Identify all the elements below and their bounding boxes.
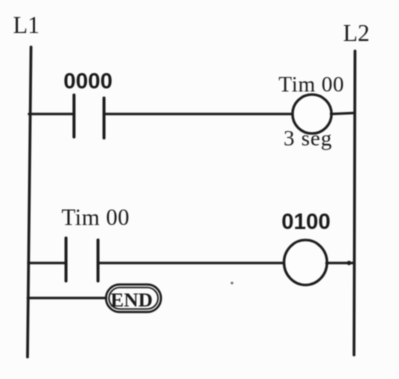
contact 0000 (74, 95, 104, 138)
wire rung1 middle (104, 113, 291, 116)
svg-text:END: END (111, 290, 153, 312)
wire rung2 left (29, 262, 67, 265)
END instruction (106, 285, 161, 313)
svg-text:L1: L1 (13, 13, 40, 39)
wire rung1 right (331, 113, 354, 114)
contact Tim 00 (66, 238, 98, 281)
left power rail L1 (28, 47, 32, 357)
svg-text:0100: 0100 (282, 209, 331, 234)
svg-text:3 seg: 3 seg (284, 126, 333, 151)
wire rung1 left (29, 113, 74, 116)
svg-text:0000: 0000 (64, 69, 113, 94)
wire rung3 END branch (28, 297, 106, 300)
stray speck (231, 282, 234, 285)
timer coil TIM 00 (293, 95, 332, 134)
svg-text:Tim 00: Tim 00 (279, 72, 345, 97)
right power rail L2 (354, 51, 355, 355)
svg-text:Tim 00: Tim 00 (62, 205, 130, 230)
svg-text:L2: L2 (343, 21, 370, 47)
wire rung2 right (327, 261, 354, 265)
output coil 0100 (284, 240, 327, 285)
wire rung2 middle (98, 262, 284, 265)
